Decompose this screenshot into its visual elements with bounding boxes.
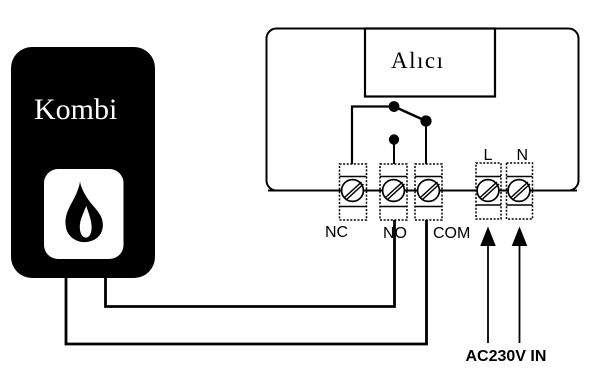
wire NO to boiler [106,220,395,307]
terminal block NC [340,164,367,220]
screw N [508,180,530,202]
screw L [477,180,499,202]
flame icon [65,182,102,243]
relay blade [394,107,426,122]
relay pivot node [389,101,400,112]
wire bus (receiver bottom edge across terminals) [268,190,577,192]
terminal block L [476,163,501,219]
terminal block COM [415,164,442,220]
terminal block N [507,163,533,219]
wire COM riser [425,121,427,164]
wire NO stub [393,140,395,165]
svg-text:NC: NC [325,224,348,241]
screw NO [383,180,405,202]
svg-text:N: N [517,147,529,164]
boiler Kombi body [11,47,155,278]
wire COM to boiler [66,220,427,344]
svg-text:Alıcı: Alıcı [391,48,445,73]
arrow N in [512,227,528,344]
screw NC [342,180,364,202]
svg-text:L: L [484,147,493,164]
svg-text:Kombi: Kombi [34,93,117,126]
relay contact node COM [420,115,431,126]
wire NC riser [352,107,394,165]
Alici label box [365,29,495,97]
terminal block NO [380,164,407,220]
boiler flame panel [44,169,124,259]
svg-text:COM: COM [433,225,470,242]
arrow L in [480,227,496,344]
svg-text:AC230V IN: AC230V IN [466,348,547,365]
screw COM [418,180,440,202]
relay contact node NO [389,134,399,144]
receiver outline (Alici unit) [267,29,579,191]
